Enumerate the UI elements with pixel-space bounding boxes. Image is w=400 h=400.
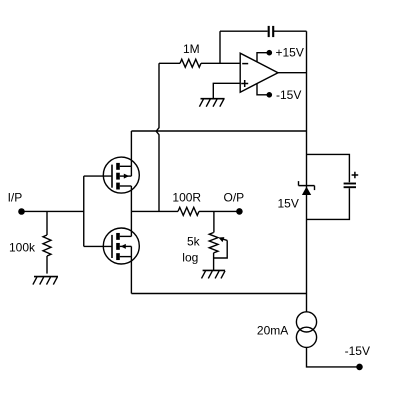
- svg-text:5k: 5k: [187, 235, 201, 249]
- node I/P dot: [19, 209, 24, 214]
- wiper arrow: [218, 237, 227, 242]
- wire input node down to 100k: [46, 211, 48, 235]
- wire +15V stub: [257, 53, 267, 62]
- svg-text:15V: 15V: [278, 197, 299, 211]
- transistor Q1: [84, 157, 140, 193]
- svg-text:100R: 100R: [172, 190, 201, 204]
- transistor Q2: [84, 228, 140, 264]
- wire drain node horizontal: [131, 130, 306, 132]
- wire bottom horizontal: [131, 293, 306, 295]
- wire cap to inverting node: [219, 31, 221, 63]
- wire top feedback left: [220, 30, 268, 32]
- wire cap branch top: [307, 154, 350, 182]
- svg-text:+15V: +15V: [276, 45, 304, 59]
- wire wiper loop: [214, 240, 228, 258]
- wire cap branch bottom: [307, 188, 350, 219]
- ground pot: [202, 270, 226, 278]
- wire -15V stub: [257, 84, 267, 95]
- op-amp plus label: [241, 80, 248, 87]
- wire 1M to op-amp inverting input: [201, 62, 240, 64]
- capacitor C1 feedback: [269, 26, 274, 37]
- svg-text:I/P: I/P: [8, 190, 23, 204]
- wire pot to ground: [213, 253, 215, 271]
- ground 100k: [33, 277, 58, 285]
- wire Q1 drain vertical: [130, 131, 132, 166]
- resistor R2 100R: [178, 207, 199, 215]
- wire mosfet junction to 100R: [131, 210, 178, 212]
- diode D1 zener 15V: [299, 181, 315, 195]
- node O/P dot: [237, 209, 242, 214]
- ground op-amp: [199, 99, 224, 107]
- svg-text:100k: 100k: [9, 241, 36, 255]
- svg-text:20mA: 20mA: [257, 324, 288, 338]
- wire 100R to O/P: [199, 210, 239, 212]
- svg-text:-15V: -15V: [276, 88, 301, 102]
- wire current source to -15V: [307, 347, 360, 367]
- wire input to gates: [22, 210, 84, 212]
- wire non-inverting input to ground: [213, 83, 240, 98]
- wire op-amp output: [278, 72, 307, 74]
- svg-text:O/P: O/P: [224, 190, 245, 204]
- svg-text:-15V: -15V: [345, 344, 370, 358]
- resistor R1 1M: [180, 59, 201, 67]
- wire top feedback right: [274, 30, 307, 32]
- wire 100k to ground: [46, 256, 48, 274]
- capacitor plus label: [352, 172, 359, 179]
- node -15V dot bottom: [357, 364, 362, 369]
- current source I1: [296, 312, 316, 348]
- op-amp minus label: [242, 63, 248, 65]
- potentiometer VR1 5k: [209, 233, 218, 253]
- svg-text:log: log: [182, 250, 198, 264]
- capacitor C2 electrolytic: [344, 184, 356, 188]
- wire inverting node down with crossover jog: [156, 63, 159, 211]
- resistor R3 100k: [43, 235, 51, 256]
- svg-text:1M: 1M: [183, 42, 200, 56]
- wire output branch down to pot: [213, 211, 215, 232]
- node -15V dot: [267, 93, 271, 97]
- wire Q1 source vertical: [130, 186, 132, 211]
- wire inverting node left: [159, 62, 180, 64]
- wire gate bus vertical: [83, 176, 85, 246]
- wire right rail: [306, 31, 308, 312]
- op-amp U1: [240, 53, 278, 92]
- wire Q2 drain vertical: [130, 211, 132, 236]
- wire Q2 source vertical: [130, 257, 132, 294]
- node +15V dot: [267, 51, 271, 55]
